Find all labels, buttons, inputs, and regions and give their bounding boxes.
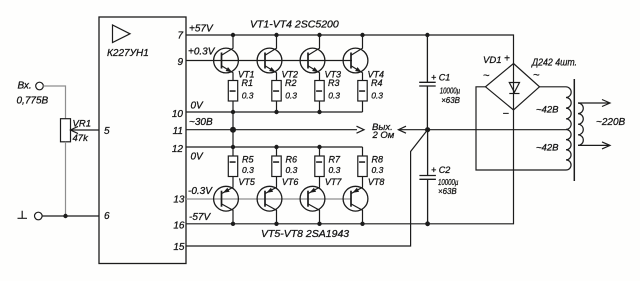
svg-text:~42В: ~42В — [536, 105, 559, 116]
svg-text:×63В: ×63В — [441, 95, 460, 105]
svg-text:11: 11 — [173, 126, 183, 137]
svg-text:+: + — [504, 54, 510, 65]
svg-text:VT5-VT8 2SA1943: VT5-VT8 2SA1943 — [261, 228, 349, 240]
svg-text:−: − — [503, 108, 510, 120]
svg-text:0,775В: 0,775В — [17, 96, 49, 107]
svg-text:~42В: ~42В — [536, 143, 559, 154]
svg-text:15: 15 — [173, 242, 185, 253]
svg-text:2 Ом: 2 Ом — [372, 130, 395, 141]
svg-text:+0.3V: +0.3V — [188, 47, 216, 58]
svg-text:0.3: 0.3 — [372, 165, 384, 175]
svg-text:VT5: VT5 — [238, 177, 256, 187]
svg-text:0.3: 0.3 — [242, 165, 254, 175]
svg-text:13: 13 — [173, 195, 185, 206]
svg-text:0.3: 0.3 — [286, 165, 298, 175]
svg-text:0V: 0V — [191, 101, 205, 112]
svg-text:16: 16 — [173, 221, 185, 232]
svg-text:12: 12 — [172, 144, 184, 155]
svg-text:К227УН1: К227УН1 — [107, 48, 149, 59]
svg-text:0V: 0V — [191, 152, 205, 163]
svg-text:R5: R5 — [242, 155, 254, 165]
svg-text:~: ~ — [483, 70, 490, 82]
svg-text:R3: R3 — [328, 78, 340, 88]
svg-text:47k: 47k — [73, 133, 90, 144]
svg-text:VD1: VD1 — [483, 55, 501, 66]
svg-text:0.3: 0.3 — [328, 91, 340, 101]
svg-text:+57V: +57V — [189, 24, 214, 35]
svg-text:R4: R4 — [371, 78, 383, 88]
svg-text:7: 7 — [177, 31, 183, 42]
svg-text:VT8: VT8 — [368, 177, 385, 187]
svg-text:-57V: -57V — [189, 212, 211, 223]
svg-text:0.3: 0.3 — [371, 91, 383, 101]
svg-text:+ C1: + C1 — [431, 72, 450, 82]
svg-text:R2: R2 — [285, 78, 297, 88]
svg-text:0.3: 0.3 — [329, 165, 341, 175]
svg-text:~: ~ — [533, 70, 540, 82]
svg-text:~220В: ~220В — [596, 117, 626, 128]
svg-text:5: 5 — [104, 126, 110, 137]
svg-text:~30В: ~30В — [189, 117, 213, 128]
svg-text:-0.3V: -0.3V — [188, 186, 213, 197]
svg-text:×63В: ×63В — [438, 186, 457, 196]
svg-text:6: 6 — [104, 211, 110, 222]
svg-text:R8: R8 — [372, 155, 384, 165]
svg-text:9: 9 — [177, 57, 183, 68]
svg-text:VT6: VT6 — [282, 177, 299, 187]
svg-text:Д242 4шт.: Д242 4шт. — [531, 57, 577, 69]
svg-text:0.3: 0.3 — [242, 91, 254, 101]
svg-text:VR1: VR1 — [73, 119, 91, 130]
svg-text:VT7: VT7 — [325, 177, 343, 187]
svg-text:0.3: 0.3 — [285, 91, 297, 101]
svg-text:10: 10 — [172, 109, 184, 120]
svg-text:+ C2: + C2 — [431, 165, 450, 175]
svg-text:Вх.: Вх. — [18, 81, 32, 92]
svg-text:VT1-VT4 2SC5200: VT1-VT4 2SC5200 — [250, 19, 339, 31]
svg-text:R1: R1 — [242, 78, 254, 88]
svg-text:R6: R6 — [286, 155, 298, 165]
svg-text:R7: R7 — [329, 155, 341, 165]
